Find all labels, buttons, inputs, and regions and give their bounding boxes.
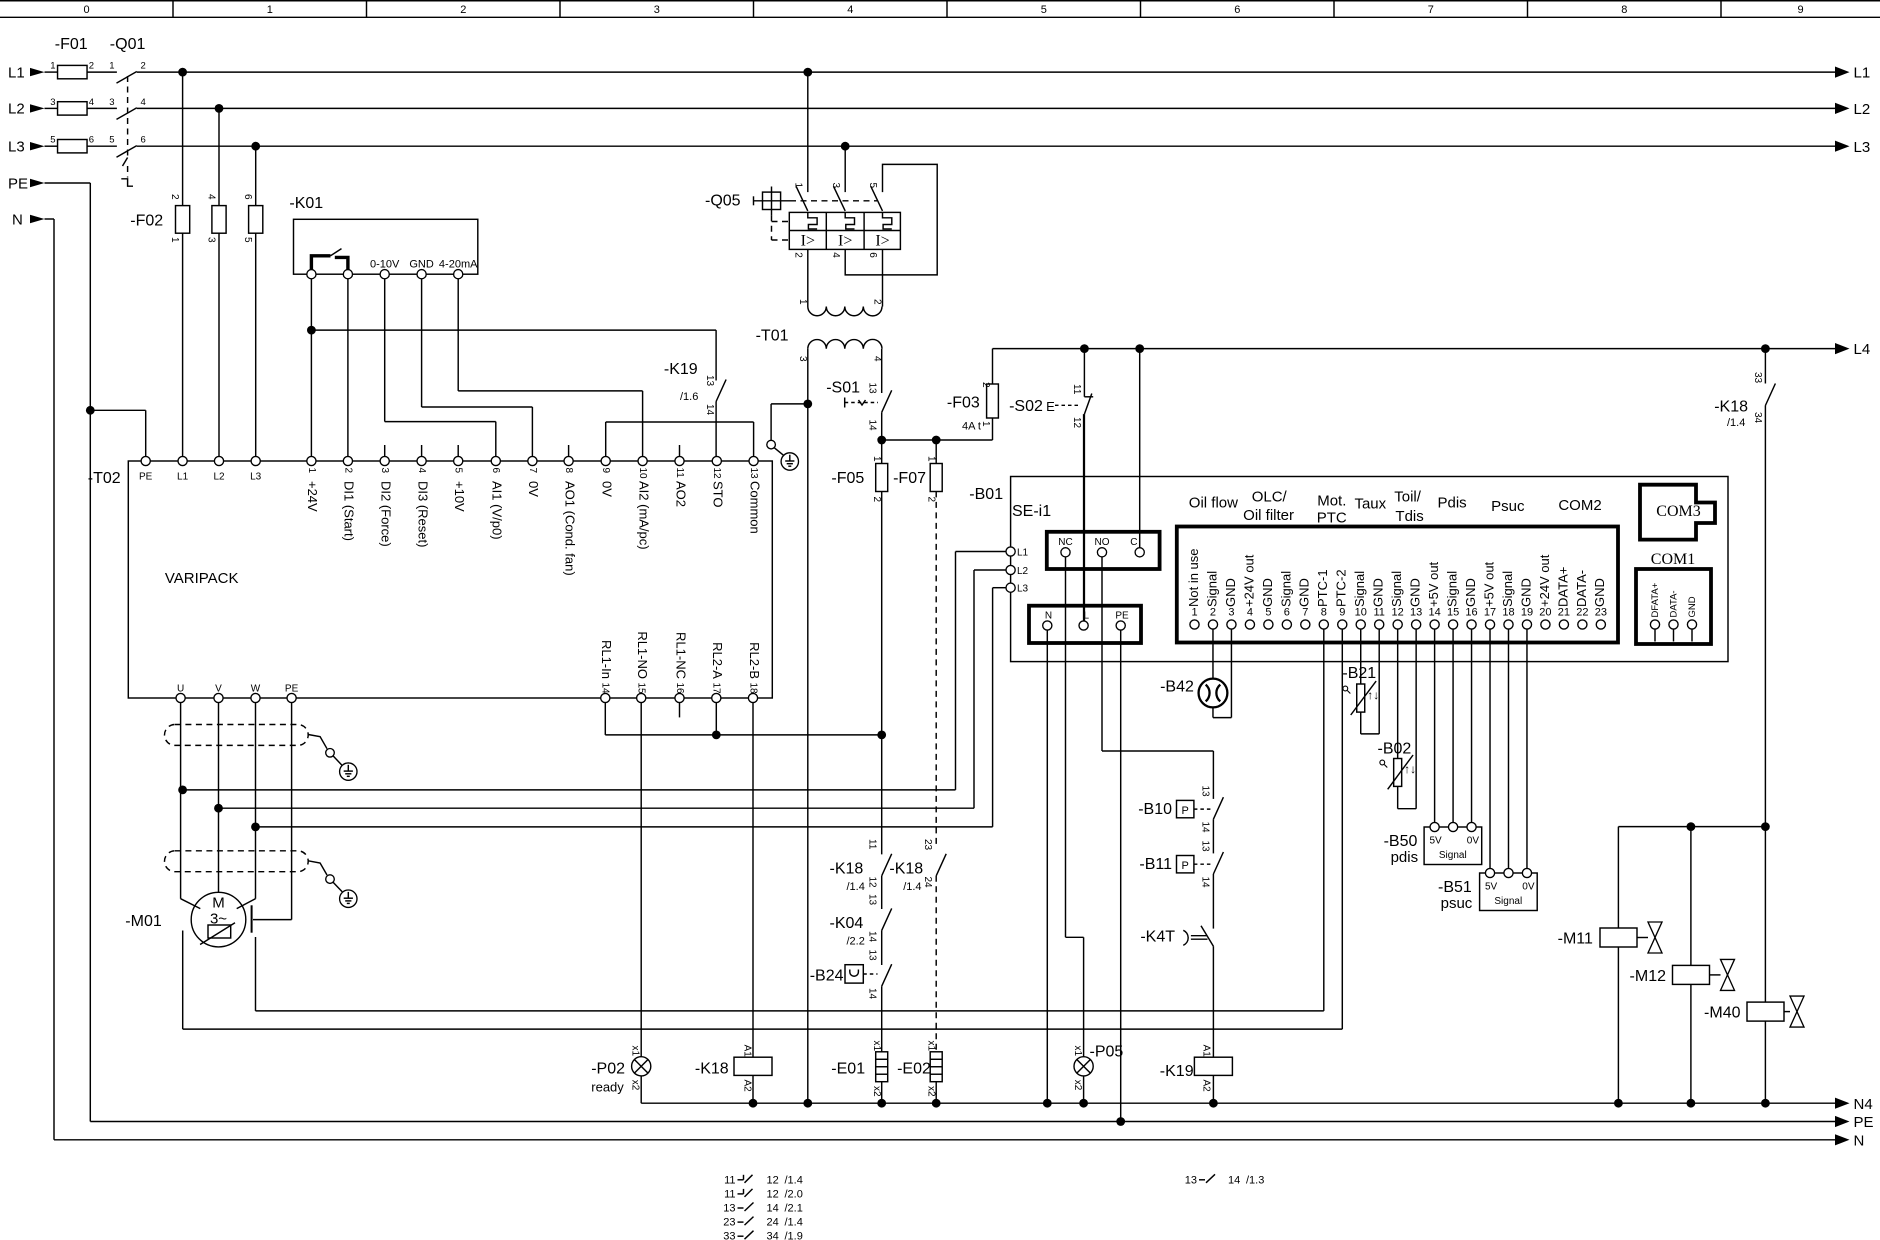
- svg-text:-Q05: -Q05: [705, 193, 741, 210]
- svg-text:4: 4: [89, 97, 94, 108]
- svg-text:4-20mA: 4-20mA: [439, 258, 478, 270]
- svg-text:5: 5: [867, 183, 878, 189]
- svg-text:L: L: [1084, 611, 1090, 622]
- svg-text:GND: GND: [1518, 578, 1533, 607]
- svg-text:18: 18: [747, 683, 758, 695]
- svg-text:5: 5: [453, 468, 464, 474]
- svg-text:-B11: -B11: [1139, 856, 1172, 873]
- svg-text:-K19: -K19: [664, 361, 698, 378]
- svg-text:/2.0: /2.0: [785, 1188, 803, 1200]
- svg-text:19: 19: [1521, 607, 1533, 619]
- svg-text:Mot.: Mot.: [1317, 493, 1346, 510]
- svg-text:/1.4: /1.4: [903, 881, 921, 893]
- svg-text:PE: PE: [8, 175, 28, 192]
- svg-text:1: 1: [926, 456, 937, 462]
- svg-text:L3: L3: [1017, 584, 1029, 595]
- svg-text:/2.1: /2.1: [785, 1203, 803, 1215]
- svg-text:7: 7: [1428, 4, 1434, 16]
- svg-text:+10V: +10V: [452, 481, 467, 512]
- svg-text:23: 23: [922, 839, 933, 851]
- svg-text:E: E: [1046, 399, 1055, 414]
- svg-text:PE: PE: [285, 684, 299, 695]
- svg-text:VARIPACK: VARIPACK: [165, 570, 239, 587]
- svg-text:PTC-1: PTC-1: [1315, 569, 1330, 607]
- svg-text:AI1 (V/p0): AI1 (V/p0): [490, 481, 505, 540]
- svg-text:-Q01: -Q01: [110, 36, 146, 53]
- svg-text:1: 1: [980, 421, 991, 427]
- svg-text:/2.2: /2.2: [847, 936, 865, 948]
- svg-text:8: 8: [1321, 607, 1327, 619]
- svg-text:2: 2: [1210, 607, 1216, 619]
- svg-text:13: 13: [867, 894, 878, 906]
- svg-text:12: 12: [867, 877, 878, 889]
- svg-text:21: 21: [1558, 607, 1570, 619]
- svg-text:Tdis: Tdis: [1395, 508, 1423, 525]
- svg-text:4: 4: [141, 97, 146, 108]
- svg-text:33: 33: [1752, 372, 1763, 384]
- svg-text:13: 13: [1185, 1174, 1197, 1186]
- svg-text:A2: A2: [742, 1080, 753, 1093]
- svg-text:Signal: Signal: [1278, 571, 1293, 607]
- svg-text:/1.4: /1.4: [785, 1217, 803, 1229]
- svg-text:Signal: Signal: [1204, 571, 1219, 607]
- svg-text:P: P: [1182, 860, 1189, 872]
- svg-text:14: 14: [1428, 607, 1440, 619]
- svg-text:COM2: COM2: [1558, 497, 1601, 514]
- svg-text:22: 22: [1576, 607, 1588, 619]
- svg-text:5V: 5V: [1485, 882, 1498, 893]
- svg-text:-B21: -B21: [1342, 665, 1376, 682]
- svg-text:-K18: -K18: [889, 861, 923, 878]
- svg-text:15: 15: [636, 683, 647, 695]
- svg-text:-F05: -F05: [831, 470, 864, 487]
- svg-text:7: 7: [527, 468, 538, 474]
- svg-text:3: 3: [797, 356, 808, 362]
- svg-text:/1.9: /1.9: [785, 1231, 803, 1240]
- svg-text:9: 9: [1339, 607, 1345, 619]
- svg-text:4A t: 4A t: [962, 421, 981, 433]
- svg-text:4: 4: [830, 252, 841, 258]
- svg-text:N4: N4: [1854, 1096, 1873, 1113]
- svg-text:10: 10: [637, 468, 648, 480]
- svg-text:-K18: -K18: [830, 861, 864, 878]
- svg-text:34: 34: [767, 1231, 779, 1240]
- svg-text:GND: GND: [1408, 578, 1423, 607]
- svg-text:0-10V: 0-10V: [370, 258, 400, 270]
- svg-text:Oil filter: Oil filter: [1243, 507, 1294, 524]
- svg-text:x2: x2: [926, 1086, 937, 1097]
- svg-text:0: 0: [83, 4, 89, 16]
- svg-text:L2: L2: [1017, 566, 1029, 577]
- svg-text:4: 4: [1247, 607, 1253, 619]
- svg-text:1: 1: [267, 4, 273, 16]
- svg-text:GND: GND: [1592, 578, 1607, 607]
- svg-text:-P05: -P05: [1090, 1044, 1124, 1061]
- svg-text:13: 13: [1200, 841, 1211, 853]
- svg-text:1: 1: [109, 61, 114, 72]
- svg-text:12: 12: [767, 1188, 779, 1200]
- svg-text:PE: PE: [1115, 611, 1129, 622]
- svg-text:14: 14: [600, 683, 611, 695]
- svg-text:14: 14: [767, 1203, 779, 1215]
- svg-text:P: P: [1182, 805, 1189, 817]
- svg-text:Not in use: Not in use: [1186, 548, 1201, 607]
- svg-text:RL1-NO: RL1-NO: [635, 631, 650, 679]
- svg-text:14: 14: [1200, 822, 1211, 834]
- svg-text:A1: A1: [742, 1045, 753, 1058]
- svg-text:x1: x1: [1072, 1046, 1083, 1057]
- svg-text:Signal: Signal: [1439, 850, 1467, 861]
- svg-text:Pdis: Pdis: [1438, 495, 1467, 512]
- svg-text:6: 6: [1284, 607, 1290, 619]
- svg-text:5: 5: [242, 237, 253, 243]
- svg-text:L3: L3: [250, 472, 262, 483]
- svg-text:14: 14: [1200, 877, 1211, 889]
- svg-text:8: 8: [1621, 4, 1627, 16]
- svg-text:x2: x2: [630, 1080, 641, 1091]
- svg-text:I>: I>: [875, 233, 889, 250]
- svg-text:Psuc: Psuc: [1491, 498, 1525, 515]
- svg-text:4: 4: [872, 356, 883, 362]
- svg-text:2: 2: [89, 61, 94, 72]
- svg-text:0V: 0V: [526, 481, 541, 497]
- svg-text:1: 1: [50, 61, 55, 72]
- svg-text:15: 15: [1447, 607, 1459, 619]
- svg-text:ready: ready: [591, 1080, 624, 1095]
- svg-text:12: 12: [767, 1174, 779, 1186]
- svg-text:-B10: -B10: [1138, 801, 1172, 818]
- svg-text:-E02: -E02: [897, 1061, 931, 1078]
- svg-text:COM3: COM3: [1656, 503, 1700, 520]
- svg-text:-F03: -F03: [947, 395, 980, 412]
- svg-text:DATA-: DATA-: [1668, 590, 1679, 617]
- svg-text:-F07: -F07: [893, 470, 926, 487]
- svg-text:1: 1: [1191, 607, 1197, 619]
- svg-text:16: 16: [674, 683, 685, 695]
- svg-text:N: N: [12, 211, 23, 228]
- svg-text:NC: NC: [1058, 537, 1072, 548]
- svg-text:SE-i1: SE-i1: [1012, 503, 1051, 520]
- svg-text:13: 13: [723, 1203, 735, 1215]
- svg-text:8: 8: [563, 468, 574, 474]
- svg-text:RL1-In: RL1-In: [599, 640, 614, 679]
- svg-text:STO: STO: [711, 481, 726, 508]
- svg-text:PTC-2: PTC-2: [1334, 569, 1349, 607]
- svg-text:I>: I>: [838, 233, 852, 250]
- svg-text:13: 13: [867, 383, 878, 395]
- svg-text:L1: L1: [8, 64, 25, 81]
- svg-text:DI2 (Force): DI2 (Force): [379, 481, 394, 547]
- svg-text:6: 6: [1234, 4, 1240, 16]
- svg-text:AO2: AO2: [673, 481, 688, 507]
- svg-text:Signal: Signal: [1352, 571, 1367, 607]
- svg-text:NO: NO: [1095, 537, 1110, 548]
- svg-text:6: 6: [89, 135, 94, 146]
- svg-text:Signal: Signal: [1389, 571, 1404, 607]
- svg-text:x1: x1: [871, 1041, 882, 1052]
- svg-text:-K19: -K19: [1160, 1063, 1194, 1080]
- svg-text:GND: GND: [1463, 578, 1478, 607]
- svg-text:14: 14: [867, 420, 878, 432]
- svg-text:23: 23: [1595, 607, 1607, 619]
- svg-text:PTC: PTC: [1317, 510, 1347, 527]
- svg-text:12: 12: [1071, 417, 1082, 429]
- svg-text:-B51: -B51: [1438, 879, 1472, 896]
- svg-text:OLC/: OLC/: [1252, 489, 1288, 506]
- svg-text:/1.4: /1.4: [785, 1174, 803, 1186]
- svg-text:x2: x2: [1072, 1080, 1083, 1091]
- svg-text:11: 11: [724, 1174, 735, 1186]
- svg-text:+24V: +24V: [305, 481, 320, 512]
- svg-text:20: 20: [1539, 607, 1551, 619]
- svg-text:DATA-: DATA-: [1574, 570, 1589, 607]
- svg-text:-B50: -B50: [1384, 833, 1418, 850]
- svg-text:1: 1: [169, 237, 180, 243]
- svg-text:5: 5: [50, 135, 55, 146]
- svg-text:13: 13: [748, 468, 759, 480]
- svg-text:GND: GND: [1297, 578, 1312, 607]
- svg-text:2: 2: [980, 382, 991, 388]
- svg-text:1: 1: [793, 183, 804, 189]
- svg-text:-S01: -S01: [826, 380, 860, 397]
- svg-text:RL1-NC: RL1-NC: [673, 632, 688, 679]
- svg-text:-M11: -M11: [1558, 931, 1593, 948]
- svg-text:9: 9: [1797, 4, 1803, 16]
- svg-text:PE: PE: [1854, 1114, 1874, 1131]
- svg-text:12: 12: [1392, 607, 1404, 619]
- svg-text:13: 13: [1200, 786, 1211, 798]
- svg-text:Signal: Signal: [1500, 571, 1515, 607]
- svg-text:3: 3: [109, 97, 114, 108]
- svg-text:DI3 (Reset): DI3 (Reset): [415, 481, 430, 547]
- svg-text:2: 2: [793, 252, 804, 258]
- svg-text:/1.3: /1.3: [1246, 1174, 1264, 1186]
- svg-text:U: U: [177, 684, 184, 695]
- svg-text:2: 2: [141, 61, 146, 72]
- svg-text:L1: L1: [177, 472, 189, 483]
- svg-text:11: 11: [1373, 607, 1384, 619]
- svg-text:C: C: [1130, 537, 1137, 548]
- svg-text:L1: L1: [1854, 65, 1871, 82]
- svg-text:/1.6: /1.6: [680, 391, 698, 403]
- svg-text:GND: GND: [1260, 578, 1275, 607]
- svg-text:AO1 (Cond. fan): AO1 (Cond. fan): [562, 481, 577, 576]
- svg-text:24: 24: [922, 877, 933, 889]
- svg-text:I>: I>: [801, 233, 815, 250]
- svg-text:N: N: [1045, 611, 1052, 622]
- svg-text:Oil flow: Oil flow: [1189, 495, 1238, 512]
- svg-text:3: 3: [654, 4, 660, 16]
- svg-text:24: 24: [767, 1217, 779, 1229]
- svg-text:DATA+: DATA+: [1555, 567, 1570, 607]
- svg-text:/1.4: /1.4: [847, 881, 865, 893]
- svg-text:+24V out: +24V out: [1537, 554, 1552, 607]
- svg-text:Signal: Signal: [1444, 571, 1459, 607]
- svg-text:0V: 0V: [1467, 836, 1480, 847]
- svg-text:DFATA+: DFATA+: [1650, 582, 1661, 617]
- svg-text:DI1 (Start): DI1 (Start): [342, 481, 357, 541]
- svg-text:Common: Common: [747, 481, 762, 534]
- svg-text:N: N: [1854, 1132, 1865, 1149]
- svg-text:-B24: -B24: [810, 968, 844, 985]
- svg-text:1: 1: [306, 468, 317, 474]
- svg-text:A2: A2: [1201, 1080, 1212, 1093]
- svg-text:5: 5: [1041, 4, 1047, 16]
- svg-text:14: 14: [704, 404, 715, 416]
- svg-text:2: 2: [169, 194, 180, 200]
- svg-text:-B42: -B42: [1160, 679, 1194, 696]
- svg-text:-K18: -K18: [695, 1061, 729, 1078]
- svg-text:7: 7: [1302, 607, 1308, 619]
- svg-text:psuc: psuc: [1441, 895, 1473, 912]
- svg-text:L2: L2: [8, 101, 25, 118]
- svg-text:3: 3: [379, 468, 390, 474]
- svg-text:3: 3: [830, 183, 841, 189]
- svg-text:13: 13: [867, 950, 878, 962]
- svg-text:6: 6: [242, 194, 253, 200]
- svg-text:2: 2: [460, 4, 466, 16]
- svg-text:GND: GND: [409, 258, 434, 270]
- svg-text:13: 13: [1410, 607, 1422, 619]
- svg-text:Taux: Taux: [1354, 496, 1386, 513]
- svg-text:-M40: -M40: [1704, 1005, 1741, 1022]
- svg-text:+5V out: +5V out: [1481, 561, 1496, 607]
- svg-text:RL2-B: RL2-B: [747, 642, 762, 679]
- svg-text:5: 5: [109, 135, 114, 146]
- svg-text:GND: GND: [1371, 578, 1386, 607]
- svg-text:A1: A1: [1201, 1045, 1212, 1058]
- svg-text:M: M: [212, 895, 225, 912]
- svg-text:-S02: -S02: [1009, 398, 1043, 415]
- svg-text:14: 14: [867, 931, 878, 943]
- svg-text:-B02: -B02: [1378, 741, 1412, 758]
- svg-text:16: 16: [1465, 607, 1477, 619]
- svg-text:9: 9: [600, 468, 611, 474]
- svg-text:Toil/: Toil/: [1394, 489, 1422, 506]
- svg-text:4: 4: [206, 194, 217, 200]
- svg-text:11: 11: [724, 1188, 735, 1200]
- svg-text:pdis: pdis: [1391, 849, 1419, 866]
- svg-text:3: 3: [1228, 607, 1234, 619]
- svg-text:-B01: -B01: [969, 486, 1003, 503]
- svg-text:4: 4: [416, 468, 427, 474]
- svg-text:6: 6: [490, 468, 501, 474]
- svg-text:33: 33: [723, 1231, 735, 1240]
- svg-text:13: 13: [704, 375, 715, 387]
- svg-text:-T02: -T02: [88, 470, 121, 487]
- svg-text:-K18: -K18: [1714, 399, 1748, 416]
- svg-text:34: 34: [1752, 412, 1763, 424]
- svg-text:2: 2: [871, 497, 882, 503]
- svg-text:-F02: -F02: [130, 213, 163, 230]
- svg-text:PE: PE: [139, 472, 153, 483]
- svg-text:1: 1: [871, 456, 882, 462]
- svg-text:↑↓: ↑↓: [1404, 762, 1416, 776]
- svg-text:3: 3: [206, 237, 217, 243]
- svg-text:10: 10: [1355, 607, 1367, 619]
- svg-text:5V: 5V: [1430, 836, 1443, 847]
- svg-text:GND: GND: [1223, 578, 1238, 607]
- svg-text:11: 11: [867, 839, 878, 850]
- svg-text:-K4T: -K4T: [1140, 929, 1175, 946]
- svg-text:-M01: -M01: [125, 913, 162, 930]
- svg-text:RL2-A: RL2-A: [710, 642, 725, 679]
- svg-text:L3: L3: [8, 139, 25, 156]
- svg-text:+5V out: +5V out: [1426, 561, 1441, 607]
- svg-text:x2: x2: [871, 1086, 882, 1097]
- svg-text:L4: L4: [1854, 341, 1871, 358]
- svg-text:6: 6: [867, 252, 878, 258]
- svg-text:11: 11: [674, 468, 685, 479]
- svg-text:0V: 0V: [600, 481, 615, 497]
- svg-text:W: W: [251, 684, 261, 695]
- svg-text:+24V out: +24V out: [1241, 554, 1256, 607]
- svg-text:x1: x1: [926, 1041, 937, 1052]
- svg-text:11: 11: [1071, 384, 1082, 395]
- svg-text:-T01: -T01: [756, 328, 789, 345]
- svg-text:L2: L2: [213, 472, 225, 483]
- svg-text:-E01: -E01: [831, 1061, 865, 1078]
- svg-text:x1: x1: [630, 1046, 641, 1057]
- svg-text:-K04: -K04: [830, 915, 864, 932]
- svg-text:0V: 0V: [1522, 882, 1535, 893]
- svg-text:AI2 (mA/pc): AI2 (mA/pc): [636, 481, 651, 550]
- svg-text:3: 3: [50, 97, 55, 108]
- svg-text:1: 1: [797, 299, 808, 305]
- svg-text:L3: L3: [1854, 139, 1871, 156]
- svg-text:6: 6: [141, 135, 146, 146]
- svg-text:2: 2: [926, 497, 937, 503]
- svg-text:12: 12: [711, 468, 722, 480]
- svg-text:4: 4: [847, 4, 853, 16]
- svg-text:-F01: -F01: [55, 36, 88, 53]
- svg-text:5: 5: [1265, 607, 1271, 619]
- svg-text:Signal: Signal: [1494, 896, 1522, 907]
- svg-text:-P02: -P02: [591, 1061, 625, 1078]
- svg-text:14: 14: [867, 988, 878, 1000]
- svg-text:GND: GND: [1687, 596, 1698, 617]
- svg-text:14: 14: [1228, 1174, 1240, 1186]
- svg-text:-M12: -M12: [1630, 968, 1667, 985]
- svg-text:/1.4: /1.4: [1727, 417, 1745, 429]
- svg-text:17: 17: [1484, 607, 1496, 619]
- svg-text:COM1: COM1: [1651, 551, 1695, 568]
- svg-text:2: 2: [342, 468, 353, 474]
- svg-text:17: 17: [711, 683, 722, 695]
- svg-text:2: 2: [872, 299, 883, 305]
- svg-text:↑↓: ↑↓: [1367, 688, 1379, 702]
- svg-text:-K01: -K01: [289, 195, 323, 212]
- svg-text:23: 23: [723, 1217, 735, 1229]
- svg-text:V: V: [215, 684, 222, 695]
- svg-text:L1: L1: [1017, 548, 1029, 559]
- svg-text:18: 18: [1502, 607, 1514, 619]
- svg-text:L2: L2: [1854, 101, 1871, 118]
